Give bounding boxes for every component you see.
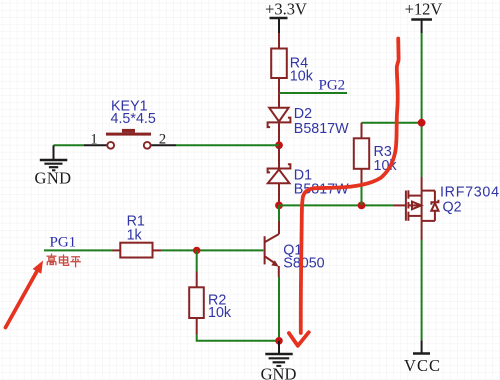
wire [421,221,423,240]
ground [261,341,297,380]
svg-text:GND: GND [35,169,72,188]
svg-text:10k: 10k [208,305,232,321]
node junction [418,119,426,127]
resistor R1 [113,214,162,258]
wire [278,205,280,221]
wire [278,78,280,108]
svg-text:GND: GND [261,365,297,380]
wire [421,177,423,191]
diode D2 [268,106,350,137]
annotation red arrow PG1 [6,261,44,328]
svg-text:1k: 1k [127,228,143,244]
wire [196,250,198,271]
wire [362,122,422,124]
wire [278,277,280,341]
svg-text:Q2: Q2 [443,200,462,216]
svg-text:D2: D2 [294,106,312,122]
power +3.3V [265,0,307,33]
svg-text:PG1: PG1 [50,235,77,251]
wire [279,204,394,206]
wire [197,335,279,341]
wire [278,122,280,145]
wire [197,249,264,251]
svg-text:+12V: +12V [405,0,443,19]
wire [278,183,280,205]
node junction [275,202,283,210]
power VCC [404,340,441,375]
ground [35,145,72,187]
resistor R3 [354,123,398,183]
wire [176,144,279,146]
svg-text:2: 2 [159,132,166,148]
switch KEY1 [84,99,176,149]
wire [421,33,423,177]
wire [278,33,280,49]
annotation text 高电平 [47,254,81,268]
resistor R4 [271,49,314,85]
svg-text:4.5*4.5: 4.5*4.5 [111,111,156,127]
svg-text:S8050: S8050 [283,256,324,272]
svg-text:IRF7304: IRF7304 [440,185,500,201]
svg-text:+3.3V: +3.3V [265,0,307,19]
annotation red squiggle arrow [289,39,399,346]
resistor R2 [189,272,232,335]
diode D1 [268,145,350,197]
node PG1 [44,235,113,251]
node junction [275,141,283,149]
transistor Q1 [265,221,325,277]
svg-text:10k: 10k [290,69,314,85]
node PG2 [279,78,347,94]
node junction [358,202,366,210]
node junction [275,337,283,345]
svg-text:PG2: PG2 [319,78,346,94]
node junction [193,247,200,254]
wire [361,183,363,205]
svg-text:B5817W: B5817W [294,121,349,137]
wire [161,249,197,251]
wire [421,240,423,340]
wire [54,144,85,146]
svg-text:1: 1 [90,132,97,148]
power +12V [405,0,443,33]
mosfet Q2 [394,185,500,221]
svg-text:VCC: VCC [404,356,441,375]
